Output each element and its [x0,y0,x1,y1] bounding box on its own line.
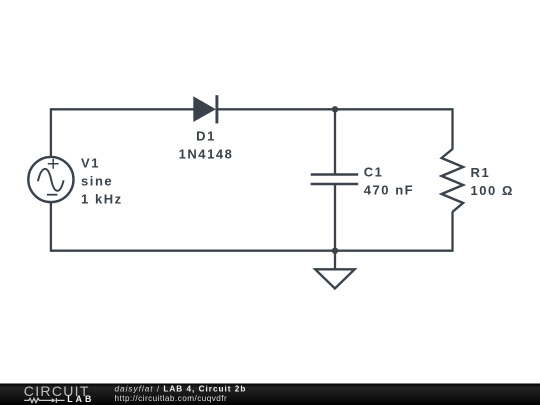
wire top: node A to R1 [335,108,453,110]
wire: C1 bottom plate to node B [334,184,336,251]
footer bar [0,384,540,405]
label D1 value [179,129,234,162]
label C1 value [364,165,414,198]
svg-text:1 kHz: 1 kHz [81,192,123,207]
wire left: V1 minus terminal to bottom wire [50,203,52,252]
svg-text:470 nF: 470 nF [364,182,414,197]
wire right: top wire to R1 [451,108,453,149]
svg-text:LAB: LAB [67,394,92,404]
wire bottom: V1 to node B [51,250,335,252]
label R1 value [471,165,514,198]
svg-text:http://circuitlab.com/cuqvdfr: http://circuitlab.com/cuqvdfr [115,394,228,403]
svg-text:daisyflat / LAB 4, Circuit 2b: daisyflat / LAB 4, Circuit 2b [115,385,247,394]
wire left: top wire to V1 plus terminal [50,108,52,156]
svg-text:100 Ω: 100 Ω [471,183,514,198]
svg-text:R1: R1 [471,165,491,180]
wire top: V1 to D1 anode [51,108,194,110]
CircuitLab logo resistor-diode glyph [24,398,64,403]
svg-text:1N4148: 1N4148 [179,146,234,161]
label V1 value [81,156,123,207]
svg-text:sine: sine [81,174,113,189]
ground [315,251,354,289]
svg-text:V1: V1 [81,156,100,171]
diode D1 [193,95,217,123]
svg-text:D1: D1 [196,129,216,144]
wire: node A to C1 top plate [334,109,336,174]
wire top: D1 cathode to node A [217,108,336,110]
wire bottom: node B to R1 [335,250,453,252]
wire right: R1 to bottom wire [451,212,453,252]
resistor R1 [442,149,464,212]
node A junction dot [332,106,338,112]
svg-text:C1: C1 [364,165,384,180]
voltage source V1 [28,157,73,202]
node B junction dot [332,248,338,254]
capacitor C1 [311,175,359,185]
